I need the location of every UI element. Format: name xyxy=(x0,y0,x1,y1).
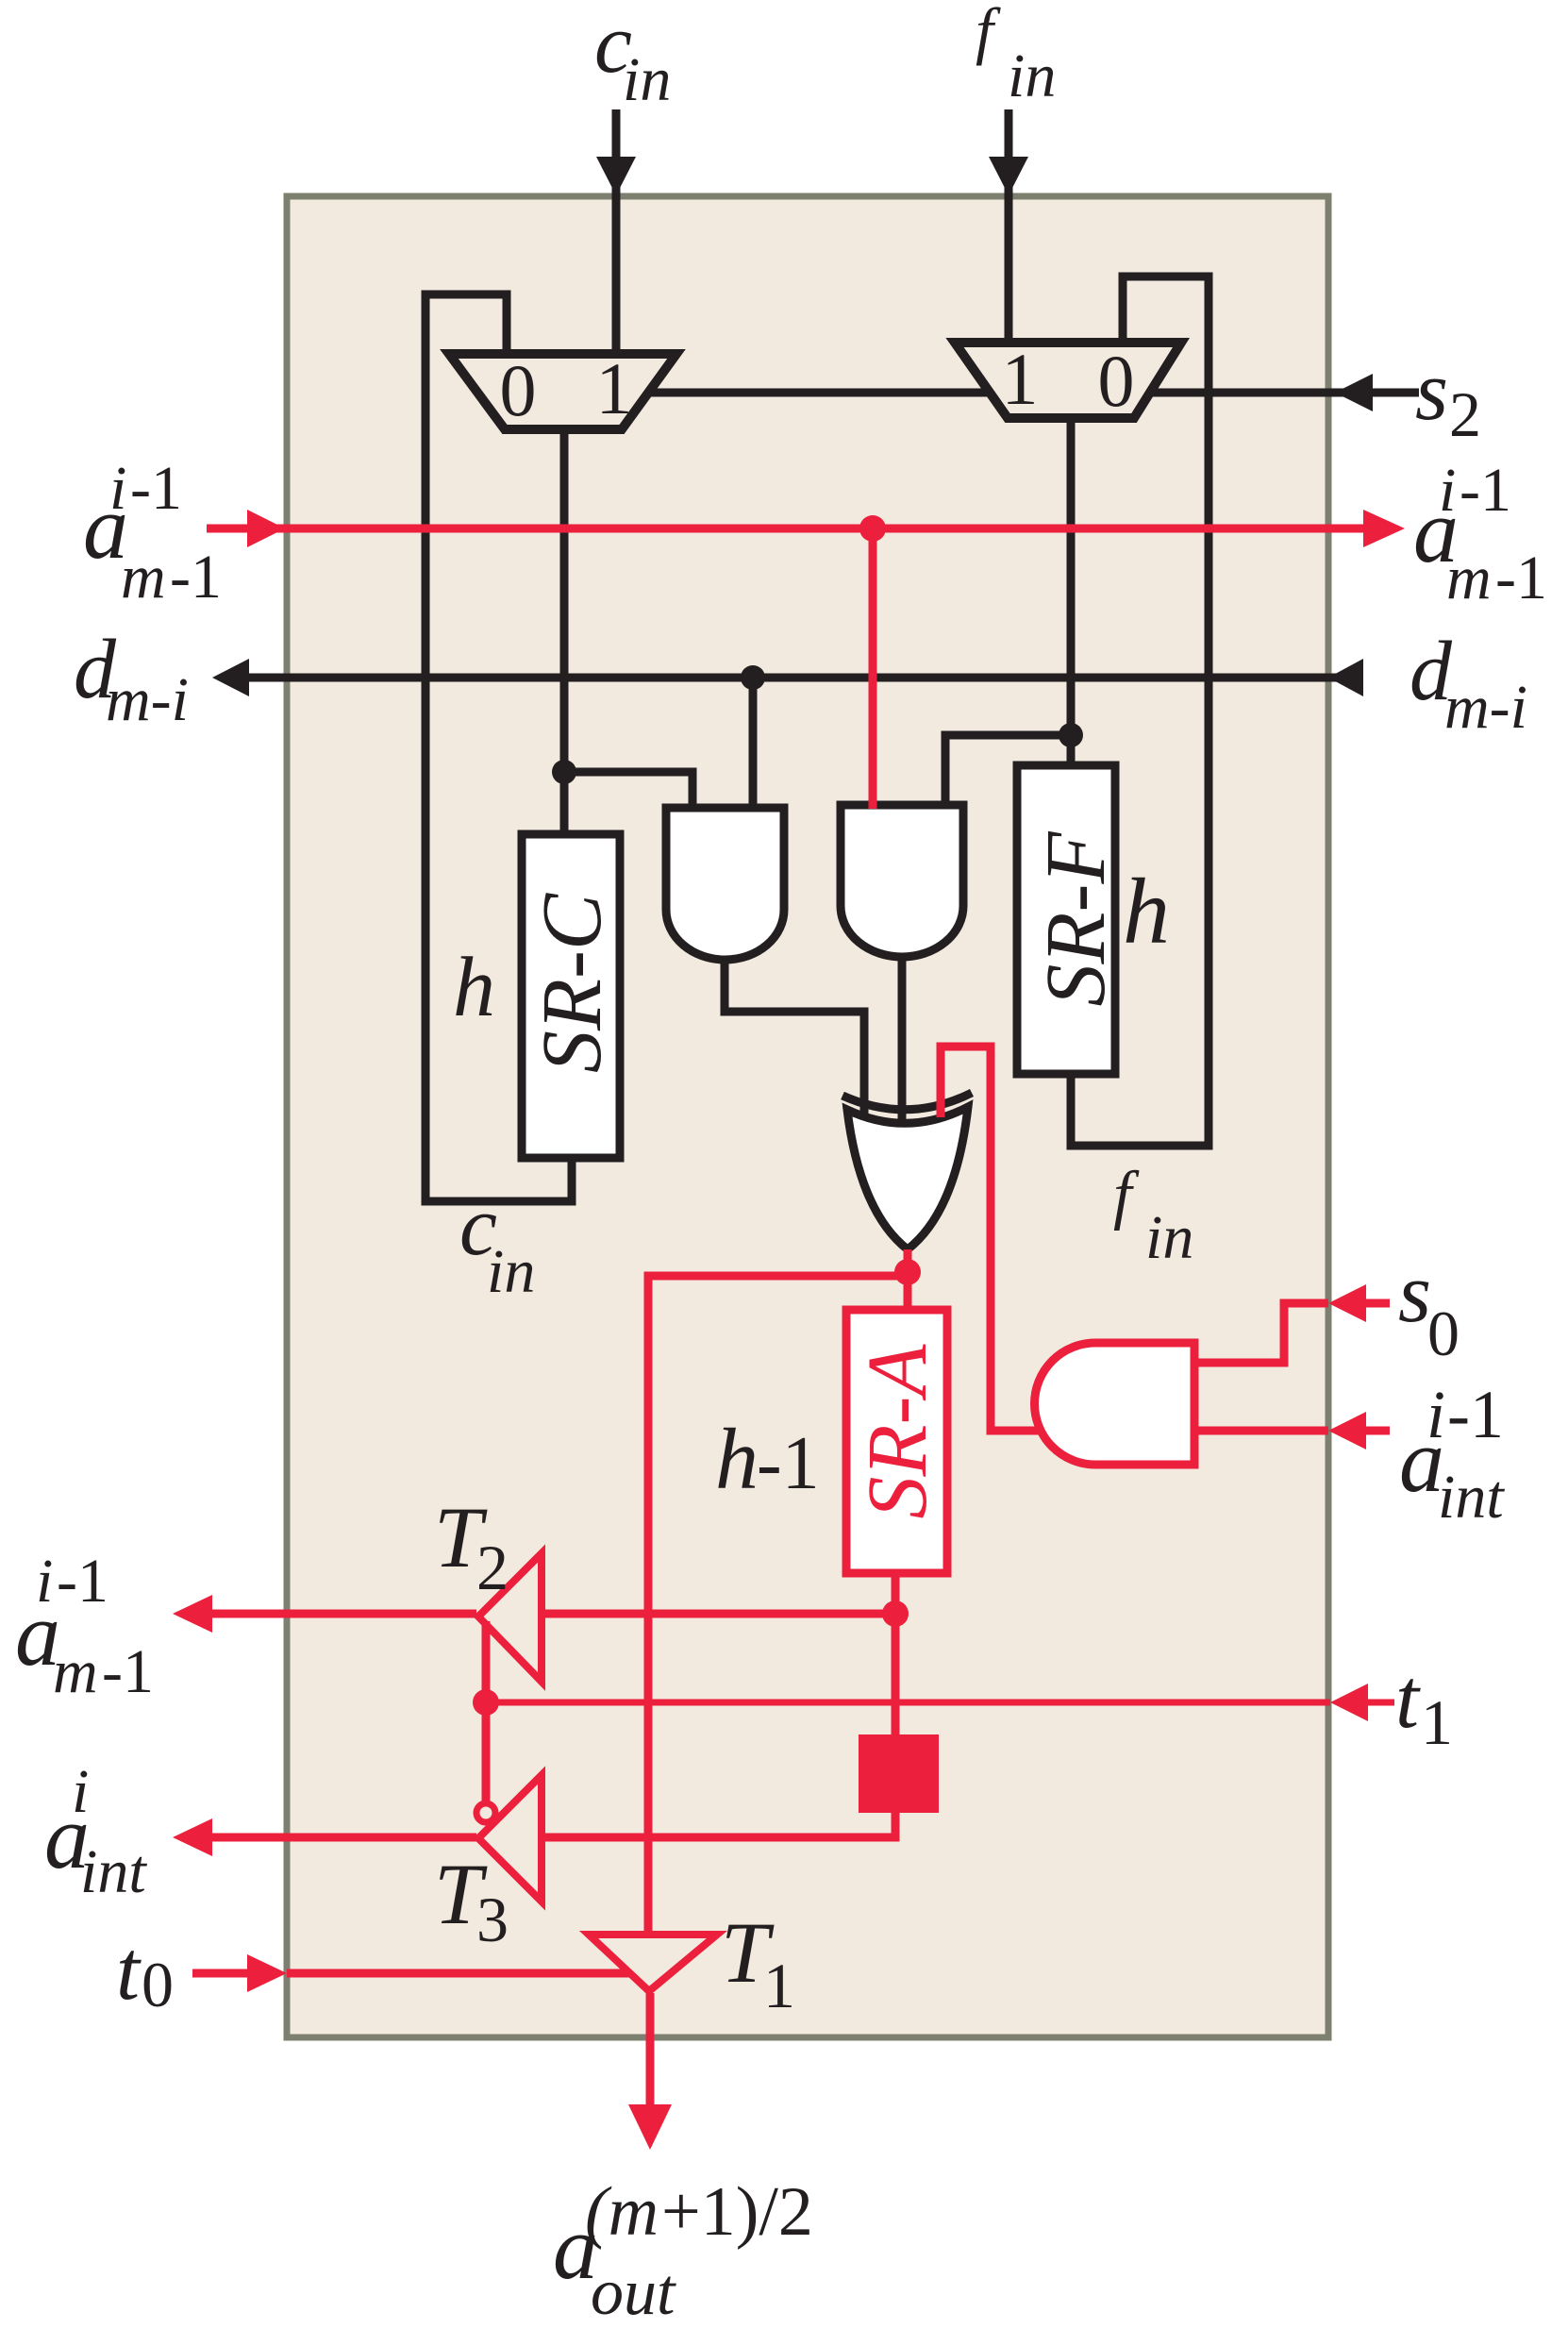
red wire T1 output xyxy=(646,1993,655,2114)
red wire t1 line xyxy=(486,1700,1394,1706)
svg-text:m: m xyxy=(121,543,166,612)
wire AND2 output to XOR xyxy=(898,961,907,1123)
svg-text:s: s xyxy=(1398,1247,1431,1340)
red wire junction to T2 input xyxy=(541,1610,895,1618)
wire right mux output to SR-F xyxy=(1067,418,1076,765)
s0 arrowhead xyxy=(1328,1284,1366,1322)
red wire a_m-1 down to AND2 left input xyxy=(869,528,877,809)
label t1 xyxy=(1395,1652,1453,1758)
T1 output arrowhead xyxy=(628,2104,672,2150)
junction dot on mux1 output xyxy=(552,760,576,784)
svg-text:m: m xyxy=(53,1637,98,1706)
s2 arrowhead xyxy=(1335,374,1373,411)
red wire t0 input xyxy=(192,1969,630,1978)
junction dot on d line xyxy=(741,665,765,690)
tri-state buffer T1 (pointing down) xyxy=(589,1935,717,1991)
svg-text:SR-C: SR-C xyxy=(525,893,619,1073)
label T3 xyxy=(434,1846,509,1955)
a_m-1 right arrowhead (out of box) xyxy=(1363,510,1405,547)
svg-text:s: s xyxy=(1415,344,1448,438)
label a_out (m+1)/2 xyxy=(553,2173,813,2329)
red wire T2 output arrow xyxy=(212,1610,476,1618)
svg-text:1: 1 xyxy=(1421,1686,1453,1758)
svg-text:m: m xyxy=(1446,544,1492,612)
svg-text:0: 0 xyxy=(1098,340,1135,422)
red junction dot SR-A bottom xyxy=(882,1600,909,1627)
register SR-F xyxy=(1017,765,1115,1074)
svg-text:h: h xyxy=(453,941,495,1034)
red wire t1 to T3 enable bubble xyxy=(482,1702,491,1801)
label t0 xyxy=(116,1924,174,2020)
svg-text:m-i: m-i xyxy=(1444,673,1527,742)
T2 output arrowhead xyxy=(173,1595,212,1633)
AND gate G2 (right) xyxy=(841,805,963,957)
a_int input arrowhead xyxy=(1328,1412,1366,1449)
wire left mux output to SR-C xyxy=(560,429,569,836)
svg-text:SR-F: SR-F xyxy=(1029,831,1123,1007)
d_m-i right arrowhead xyxy=(1328,659,1363,696)
svg-text:-1: -1 xyxy=(57,1547,108,1616)
wire d_m-i line xyxy=(249,674,1363,682)
red wire SR-A junction down to square xyxy=(892,1614,900,1734)
svg-text:in: in xyxy=(623,45,671,114)
c_in input arrowhead xyxy=(596,157,636,195)
svg-text:-1: -1 xyxy=(170,543,222,612)
label s0 xyxy=(1398,1247,1460,1369)
label h-1 xyxy=(715,1411,820,1507)
red wire branch to T1 xyxy=(648,1276,908,1933)
red wire s0 input xyxy=(1194,1303,1390,1363)
red junction dot below XOR xyxy=(894,1259,921,1285)
T3 enable bubble xyxy=(476,1803,495,1822)
a_m-1 left arrowhead (into box) xyxy=(247,510,285,547)
svg-text:in: in xyxy=(1008,42,1056,110)
register SR-A (red) xyxy=(846,1310,947,1573)
f_in input arrowhead xyxy=(989,157,1028,195)
svg-text:1: 1 xyxy=(763,1950,795,2021)
cell boundary box xyxy=(287,196,1328,2037)
label f_in (bottom) xyxy=(1113,1159,1193,1272)
XOR gate upper input arc xyxy=(842,1093,972,1110)
wire s2 select line xyxy=(646,389,1419,397)
mux M2 (right) xyxy=(955,343,1181,418)
label a_m-1 i-1 (left) xyxy=(83,454,222,612)
t1 arrowhead xyxy=(1330,1684,1368,1721)
svg-text:2: 2 xyxy=(476,1532,509,1603)
label T2 xyxy=(434,1489,509,1603)
svg-text:SR-A: SR-A xyxy=(851,1344,944,1519)
svg-text:3: 3 xyxy=(476,1884,509,1955)
svg-text:-1: -1 xyxy=(1460,456,1511,525)
junction dot on mux2 output xyxy=(1059,723,1083,747)
svg-text:-1: -1 xyxy=(102,1637,154,1706)
d_m-i left arrowhead xyxy=(212,659,249,696)
svg-text:f: f xyxy=(976,0,1001,66)
register SR-C xyxy=(522,834,620,1158)
wire right mux feedback loop (SR-F to mux 0 input) xyxy=(1071,276,1209,1146)
tri-state buffer T2 xyxy=(478,1553,542,1682)
svg-text:1: 1 xyxy=(1002,338,1039,420)
label d_m-i (left) xyxy=(74,623,189,734)
label a_m-1 i-1 (output left) xyxy=(15,1547,154,1706)
t0 arrowhead xyxy=(247,1954,287,1992)
T3 output arrowhead xyxy=(173,1818,212,1856)
label s2 xyxy=(1415,344,1481,450)
svg-text:in: in xyxy=(1145,1203,1193,1272)
wire branch to AND2 right input xyxy=(945,735,1071,809)
svg-text:-1: -1 xyxy=(1447,1377,1504,1452)
wire AND1 output to XOR xyxy=(725,963,864,1114)
wire f_in input shaft xyxy=(1005,109,1013,343)
mux M1 (left) xyxy=(449,354,676,429)
red wire SR-A bottom to junction xyxy=(892,1573,900,1614)
label d_m-i (right) xyxy=(1410,625,1527,742)
red wire T3 output arrow xyxy=(212,1834,476,1842)
wire c_in input shaft xyxy=(612,109,621,354)
svg-text:in: in xyxy=(487,1237,535,1306)
red wire t1 to T2 enable xyxy=(482,1621,491,1702)
svg-text:+1)/2: +1)/2 xyxy=(661,2173,813,2251)
svg-text:h: h xyxy=(1123,859,1170,963)
wire left mux feedback loop (SR-C to mux 0 input) xyxy=(425,294,572,1201)
label a_int i (output left) xyxy=(44,1757,147,1906)
red wire square to T3 input xyxy=(541,1813,895,1837)
label a_int i-1 (right) xyxy=(1399,1377,1505,1532)
svg-text:-1: -1 xyxy=(757,1422,820,1505)
svg-text:h: h xyxy=(715,1411,759,1507)
svg-text:int: int xyxy=(1438,1463,1505,1532)
svg-text:0: 0 xyxy=(142,1949,174,2020)
red wire a_m-1 horizontal line xyxy=(207,525,1363,533)
red junction dot on a_m-1 line xyxy=(859,515,886,542)
label c_in (top) xyxy=(594,0,671,114)
svg-text:m-i: m-i xyxy=(106,665,189,734)
svg-text:-1: -1 xyxy=(130,454,182,523)
AND gate G1 (left) xyxy=(666,808,784,960)
red wire a_int i-1 input xyxy=(1194,1427,1390,1435)
label a_m-1 i-1 (right) xyxy=(1413,456,1547,612)
XOR gate body xyxy=(847,1107,968,1249)
label f_in (top) xyxy=(976,0,1056,110)
svg-text:t: t xyxy=(1395,1652,1421,1746)
red junction dot on t1 xyxy=(473,1689,499,1716)
red square (delay element) xyxy=(859,1734,939,1813)
label c_in (bottom) xyxy=(459,1180,535,1306)
svg-text:0: 0 xyxy=(500,349,537,431)
label T1 xyxy=(721,1904,795,2021)
svg-text:-1: -1 xyxy=(1495,544,1547,612)
svg-text:int: int xyxy=(80,1837,147,1906)
wire branch to AND1 left input xyxy=(564,772,692,812)
svg-text:1: 1 xyxy=(596,347,633,429)
AND gate G3 (red, pointing left) xyxy=(1035,1343,1195,1465)
red wire XOR output to SR-A xyxy=(904,1249,912,1310)
tri-state buffer T3 xyxy=(478,1775,542,1902)
svg-text:out: out xyxy=(591,2256,676,2329)
svg-text:2: 2 xyxy=(1449,378,1481,450)
red wire AND3 output to XOR right input xyxy=(941,1047,1042,1431)
wire d junction to AND1 right input xyxy=(749,678,758,812)
svg-text:t: t xyxy=(116,1924,142,2018)
svg-text:0: 0 xyxy=(1427,1298,1460,1369)
